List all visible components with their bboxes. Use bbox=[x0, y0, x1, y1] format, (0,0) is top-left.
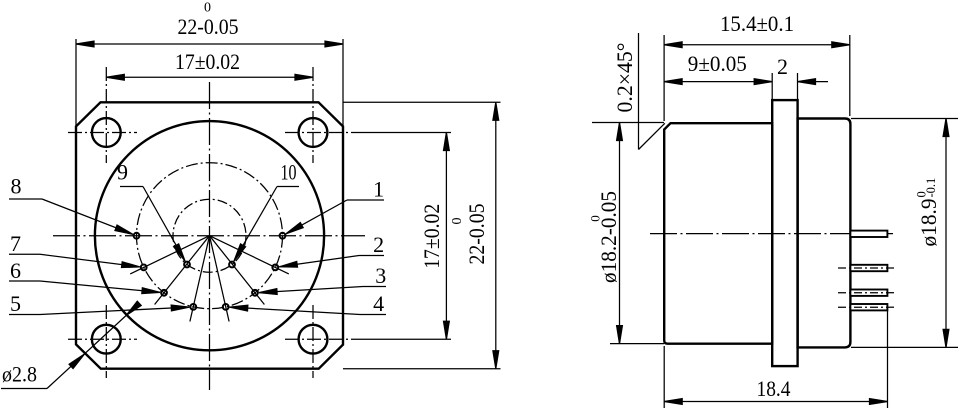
dimension 22-0.05 top: extension lines bbox=[75, 39, 77, 127]
hole centerline horizontal top-right extended to dim bbox=[285, 132, 360, 134]
dimension 17 top: dim line bbox=[106, 76, 313, 78]
mounting hole bottom-left bbox=[92, 325, 121, 354]
svg-text:0.2×45°: 0.2×45° bbox=[612, 43, 637, 113]
pin pitch circle inner bbox=[173, 199, 246, 272]
contact pin side B bbox=[838, 265, 895, 271]
leader label 8 bbox=[9, 199, 134, 237]
svg-text:ø18.2-0.05: ø18.2-0.05 bbox=[596, 191, 621, 283]
flange square outline bbox=[76, 102, 343, 368]
ray through pin 10 to pin 3 bbox=[210, 236, 265, 305]
pin 1 bbox=[280, 233, 286, 239]
dimension 22 right vertical: extension lines bbox=[343, 101, 501, 103]
dimension 22 right vertical: dim line bbox=[495, 102, 497, 368]
svg-text:6: 6 bbox=[10, 258, 21, 283]
shell body left (o18.2) bbox=[664, 123, 772, 344]
ray to pin 7 bbox=[130, 236, 209, 274]
hole centerline vertical top-right bbox=[312, 67, 314, 163]
chamfer callout 0.2x45 extension bbox=[638, 33, 640, 150]
contact pin side D bbox=[838, 304, 895, 310]
dimension 22-0.05 top: dim line bbox=[76, 43, 343, 45]
mounting hole bottom-right bbox=[299, 325, 328, 354]
hole centerline vertical top-left bbox=[105, 67, 107, 163]
pin 7 bbox=[141, 265, 147, 271]
ray to pin 4 bbox=[210, 236, 230, 322]
dimension o18.9 dim line bbox=[945, 119, 947, 348]
contact pin side C bbox=[838, 290, 895, 296]
dimension o18.2 extension lines bbox=[592, 122, 664, 124]
dimension text o18.2 vertical with tolerance bbox=[587, 191, 621, 283]
pin 3 bbox=[252, 290, 258, 296]
mounting hole top-left bbox=[92, 118, 121, 147]
leader label 10 bbox=[231, 187, 299, 263]
centerline vertical of front view bbox=[209, 82, 211, 390]
svg-text:10: 10 bbox=[281, 160, 297, 185]
ray through pin 9 to pin 6 bbox=[155, 236, 210, 305]
svg-text:9: 9 bbox=[117, 160, 128, 185]
pin 2 bbox=[272, 265, 278, 271]
svg-text:3: 3 bbox=[375, 263, 386, 288]
svg-text:17±0.02: 17±0.02 bbox=[175, 49, 240, 74]
pin 4 bbox=[223, 304, 229, 310]
dimension 9 dim line bbox=[664, 81, 772, 83]
leader label 3 bbox=[259, 287, 386, 296]
connector shell big circle bbox=[95, 121, 324, 350]
dimension 18.4 extension lines bbox=[663, 346, 665, 408]
hole centerline vertical bottom-right bbox=[312, 305, 314, 378]
dimension 18.4 dim line bbox=[664, 401, 887, 403]
ray to pin 5 bbox=[190, 236, 210, 322]
pin 10 bbox=[229, 262, 235, 268]
hole centerline horizontal top-left bbox=[68, 132, 137, 134]
svg-text:-0.1: -0.1 bbox=[924, 178, 938, 198]
svg-text:4: 4 bbox=[373, 291, 384, 316]
svg-text:8: 8 bbox=[11, 173, 22, 198]
svg-text:ø18.9: ø18.9 bbox=[916, 199, 941, 247]
contact pin side A (center) bbox=[850, 231, 887, 237]
shell body right (o18.9) bbox=[798, 119, 851, 348]
svg-text:22-0.05: 22-0.05 bbox=[464, 204, 489, 265]
dimension text o18.9 vertical with tolerance bbox=[915, 178, 942, 247]
pin 6 bbox=[161, 290, 167, 296]
svg-text:22-0.05: 22-0.05 bbox=[178, 14, 239, 39]
svg-text:9±0.05: 9±0.05 bbox=[688, 51, 747, 76]
svg-text:2: 2 bbox=[373, 232, 384, 257]
dimension 17 right vertical: dim line bbox=[445, 133, 447, 340]
pin pitch circle outer bbox=[137, 163, 283, 309]
hole centerline horizontal bottom-right extended to dim bbox=[285, 338, 360, 340]
centerline of side view bbox=[650, 233, 896, 235]
svg-text:18.4: 18.4 bbox=[757, 376, 791, 401]
leader label 9 bbox=[120, 187, 188, 263]
dimension o18.2 dim line bbox=[619, 123, 621, 344]
svg-text:2: 2 bbox=[777, 54, 788, 79]
dimension 2 extension lines bbox=[771, 73, 773, 100]
pin 5 bbox=[190, 304, 196, 310]
hole centerline vertical bottom-left bbox=[105, 305, 107, 378]
ray to pin 2 bbox=[210, 236, 289, 274]
svg-text:7: 7 bbox=[10, 231, 21, 256]
leader label 6 bbox=[9, 281, 160, 295]
svg-text:1: 1 bbox=[373, 176, 384, 201]
pin 9 bbox=[184, 262, 190, 268]
mounting hole top-right bbox=[299, 118, 328, 147]
leader label 2 bbox=[279, 256, 384, 270]
dimension 15.4 dim line bbox=[664, 44, 850, 46]
leader label 7 bbox=[9, 254, 140, 269]
svg-text:15.4±0.1: 15.4±0.1 bbox=[720, 11, 794, 36]
leader label 4 bbox=[230, 304, 386, 314]
centerline horizontal of front view bbox=[53, 235, 365, 237]
mounting flange edge-on bbox=[772, 100, 797, 366]
dimension o18.9 extension lines bbox=[851, 118, 958, 120]
svg-text:0: 0 bbox=[450, 218, 465, 225]
hole centerline horizontal bottom-left bbox=[68, 338, 137, 340]
leader label 5 bbox=[9, 304, 189, 314]
svg-text:5: 5 bbox=[10, 291, 21, 316]
dimension text 22 vertical with tolerance bbox=[450, 204, 489, 265]
dimension 2 dim line with outside arrow bbox=[798, 81, 829, 83]
dimension diameter 2.8 leader bbox=[1, 301, 141, 388]
svg-text:0: 0 bbox=[587, 215, 602, 222]
dimension 15.4 extension lines bbox=[663, 35, 665, 121]
svg-text:ø2.8: ø2.8 bbox=[2, 362, 37, 387]
pin 8 bbox=[134, 233, 140, 239]
svg-text:17±0.02: 17±0.02 bbox=[419, 204, 444, 269]
leader label 1 bbox=[285, 200, 384, 236]
